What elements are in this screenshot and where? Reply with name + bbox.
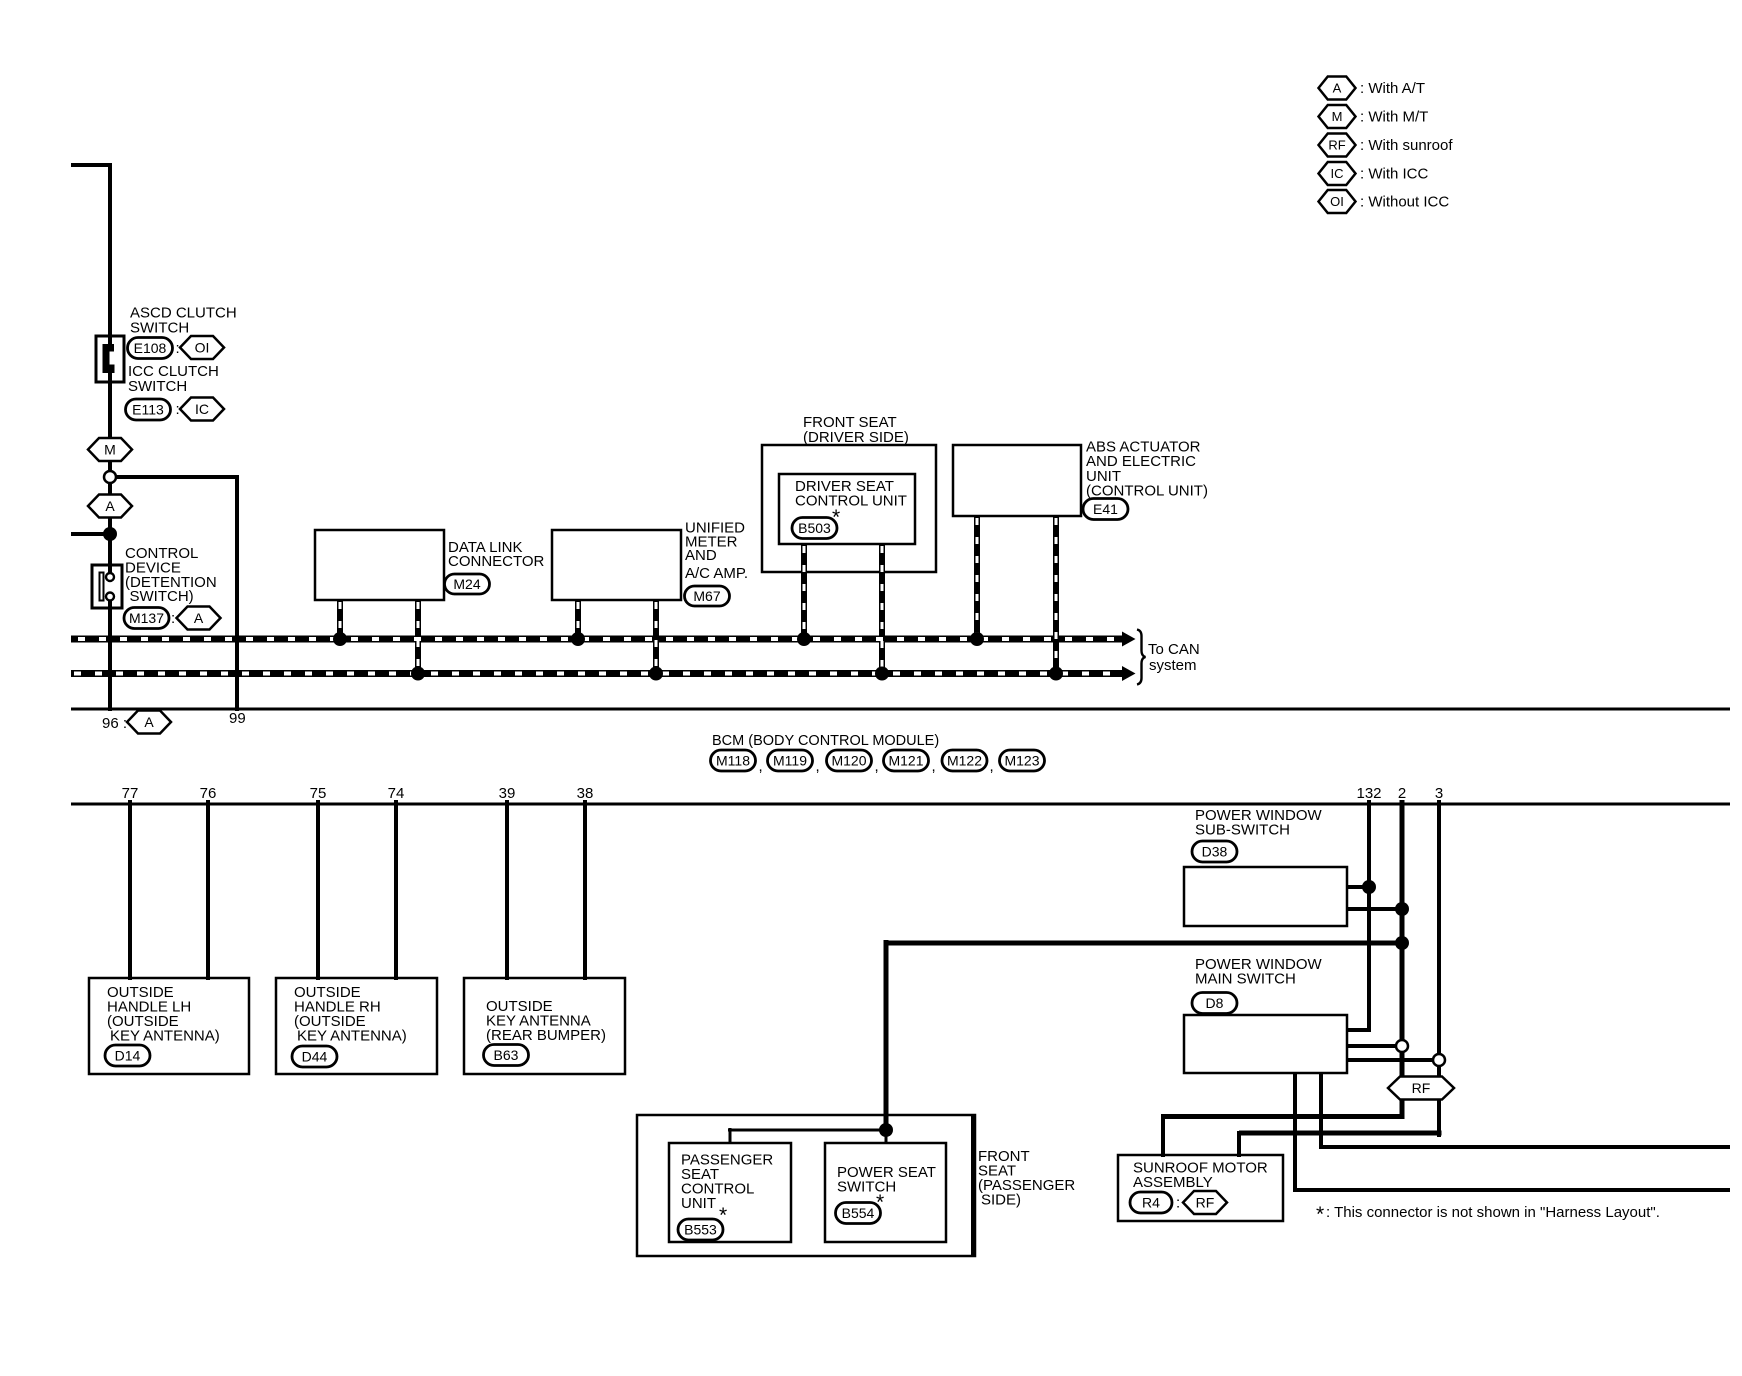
- E41L leg white dashes: [1055, 518, 1058, 671]
- junction dot trunk-2: [1395, 936, 1409, 950]
- wire sunroof horizontal 1: [1161, 1114, 1404, 1119]
- svg-text:D8: D8: [1206, 995, 1224, 1011]
- wire E41 leg to CAN-L: [1053, 516, 1059, 674]
- junction dot passenger trunk: [879, 1123, 893, 1137]
- wire D8 bottom leg right: [1319, 1073, 1323, 1149]
- connector M119: [768, 750, 813, 771]
- ABS actuator and electric unit E41 box: [953, 445, 1081, 516]
- data link connector M24 box: [315, 530, 444, 600]
- outside key antenna B63 box: [464, 978, 625, 1074]
- outside handle LH D14 box: [89, 978, 249, 1074]
- svg-text:*: *: [719, 1204, 727, 1227]
- svg-text:: This connector is not shown: : This connector is not shown in "Harnes…: [1326, 1204, 1660, 1221]
- junction dot B503/CAN-L: [875, 667, 889, 681]
- svg-text:*: *: [876, 1191, 884, 1214]
- B503H leg white dashes: [803, 546, 806, 636]
- wire branch to pin 99 horizontal: [110, 475, 239, 479]
- option tag A on wire: [88, 495, 132, 518]
- wire passenger-seat trunk horizontal: [886, 941, 1404, 946]
- svg-text:RF: RF: [1196, 1195, 1215, 1211]
- svg-text:B63: B63: [494, 1047, 519, 1063]
- svg-text:KEY ANTENNA): KEY ANTENNA): [110, 1028, 220, 1045]
- svg-text:(REAR BUMPER): (REAR BUMPER): [486, 1027, 606, 1044]
- wire CAN-L bus line: [71, 670, 1122, 677]
- wire sunroof horizontal 2: [1239, 1131, 1442, 1136]
- svg-text:: With M/T: : With M/T: [1360, 109, 1428, 126]
- svg-text:M: M: [104, 442, 116, 458]
- svg-text:M123: M123: [1004, 753, 1039, 769]
- svg-text:39: 39: [499, 785, 516, 802]
- svg-text:B554: B554: [842, 1205, 875, 1221]
- wire D8 stub B: [1347, 1058, 1441, 1062]
- wire D8 bottom leg left: [1293, 1073, 1297, 1192]
- svg-text:M120: M120: [831, 753, 866, 769]
- svg-text:D44: D44: [302, 1049, 328, 1065]
- svg-text:SWITCH: SWITCH: [837, 1179, 896, 1196]
- connector M121: [884, 750, 929, 771]
- wire thin branch to B553: [728, 1129, 888, 1132]
- svg-text:M121: M121: [888, 753, 923, 769]
- detention switch contact bottom: [106, 593, 114, 601]
- wire off-page right 2: [1295, 1188, 1730, 1192]
- CAN-H white dashes: [78, 637, 1118, 641]
- svg-text:MAIN SWITCH: MAIN SWITCH: [1195, 971, 1296, 988]
- connector B503: [792, 518, 837, 539]
- svg-text:KEY ANTENNA): KEY ANTENNA): [297, 1028, 407, 1045]
- svg-text:CONNECTOR: CONNECTOR: [448, 553, 545, 570]
- option tag M on wire: [88, 438, 132, 461]
- BCM module top line: [71, 708, 1730, 711]
- svg-text:A/C AMP.: A/C AMP.: [685, 565, 748, 582]
- svg-text:M: M: [1332, 109, 1343, 124]
- svg-text:3: 3: [1435, 785, 1443, 802]
- svg-text:74: 74: [388, 785, 405, 802]
- junction dot E41/CAN-H: [970, 632, 984, 646]
- CAN-L white dashes: [74, 672, 1118, 676]
- svg-text:: With A/T: : With A/T: [1360, 80, 1425, 97]
- svg-text:OI: OI: [1330, 194, 1344, 209]
- BCM module bottom line: [71, 803, 1730, 806]
- wire BCM pin 74 down: [394, 800, 398, 980]
- wire BCM pin 77 down: [128, 800, 132, 980]
- legend tag RF: [1319, 134, 1356, 157]
- legend tag M: [1319, 105, 1356, 128]
- option tag RF on wires: [1388, 1077, 1454, 1100]
- wire BCM pin 3 down: [1437, 800, 1441, 1137]
- connector M67: [685, 586, 730, 606]
- svg-text:A: A: [194, 610, 204, 626]
- svg-text:*: *: [832, 506, 840, 529]
- svg-text:96 :: 96 :: [102, 715, 127, 732]
- svg-text:IC: IC: [1331, 166, 1344, 181]
- connector M123: [1000, 750, 1045, 771]
- svg-text:E113: E113: [132, 402, 164, 418]
- open junction circle D8 stub A: [1396, 1040, 1408, 1052]
- driver seat control unit B503 box: [779, 474, 915, 544]
- connector M122: [942, 750, 987, 771]
- wire passenger-seat trunk vertical: [884, 940, 889, 1132]
- passenger seat control unit B553 box: [669, 1143, 791, 1242]
- svg-text:CONTROL UNIT: CONTROL UNIT: [795, 493, 907, 510]
- detention switch symbol: [107, 580, 114, 594]
- M24H leg white dashes: [339, 602, 342, 636]
- svg-text:132: 132: [1356, 785, 1381, 802]
- wire BCM pin 132 down: [1367, 800, 1371, 1032]
- wire E41 leg to CAN-H: [974, 516, 980, 639]
- wire pin 132 stub into D8: [1347, 1028, 1371, 1032]
- wire sunroof leg right: [1237, 1131, 1241, 1157]
- svg-text:99: 99: [229, 710, 246, 727]
- To CAN system brace: [1137, 630, 1146, 685]
- wire BCM pin 39 down: [505, 800, 509, 980]
- front seat passenger side outer box: [637, 1115, 975, 1256]
- connector M118: [711, 750, 756, 771]
- power window sub-switch D38 box: [1184, 867, 1347, 926]
- legend tag OI: [1319, 190, 1356, 213]
- wire CAN-H bus line: [71, 636, 1122, 643]
- wire main vertical from clutch switches to BCM pin 96: [108, 163, 112, 711]
- junction dot M67/CAN-H: [571, 632, 585, 646]
- wire M67 leg to CAN-L: [653, 600, 659, 674]
- svg-text:,: ,: [759, 758, 763, 775]
- svg-text:SIDE): SIDE): [981, 1192, 1021, 1209]
- power window main switch D8 box: [1184, 1015, 1347, 1073]
- detention switch contact top: [106, 573, 114, 581]
- legend tag A: [1319, 77, 1356, 100]
- open junction circle D8 stub B: [1433, 1054, 1445, 1066]
- M24L leg white dashes: [417, 602, 420, 671]
- wire into junction at control device: [71, 532, 112, 536]
- wire D38 stub to pin132 line: [1347, 885, 1369, 889]
- svg-text:76: 76: [200, 785, 217, 802]
- svg-text:system: system: [1149, 657, 1197, 674]
- wire D8 stub A: [1347, 1044, 1402, 1048]
- svg-text:: With sunroof: : With sunroof: [1360, 137, 1453, 154]
- svg-text:ASSEMBLY: ASSEMBLY: [1133, 1174, 1213, 1191]
- junction dot D38-2: [1395, 902, 1409, 916]
- legend tag IC: [1319, 162, 1356, 185]
- svg-text:,: ,: [932, 758, 936, 775]
- svg-text:,: ,: [990, 758, 994, 775]
- svg-text:RF: RF: [1328, 138, 1345, 153]
- svg-text:BCM (BODY CONTROL MODULE): BCM (BODY CONTROL MODULE): [712, 733, 939, 749]
- svg-text:D14: D14: [115, 1048, 141, 1064]
- svg-text:IC: IC: [195, 401, 209, 417]
- svg-text:R4: R4: [1142, 1195, 1160, 1211]
- svg-text:A: A: [144, 714, 154, 730]
- svg-text:D38: D38: [1202, 844, 1228, 860]
- svg-text::: :: [176, 340, 180, 357]
- junction dot control branch: [103, 527, 117, 541]
- svg-text:M119: M119: [773, 753, 807, 769]
- connector D38: [1192, 841, 1237, 862]
- wire B503 leg to CAN-L: [879, 544, 885, 674]
- connector R4: [1130, 1192, 1172, 1213]
- svg-text:M118: M118: [716, 753, 750, 769]
- svg-text:38: 38: [577, 785, 594, 802]
- svg-text:B553: B553: [684, 1222, 717, 1238]
- E41H leg white dashes: [976, 518, 979, 636]
- wire BCM pin 75 down: [316, 800, 320, 980]
- svg-text:SWITCH: SWITCH: [128, 378, 187, 395]
- connector B554: [836, 1203, 881, 1224]
- connector D14: [105, 1045, 150, 1066]
- option tag A pin96: [127, 711, 171, 734]
- svg-text:,: ,: [816, 758, 820, 775]
- connector E108: [128, 338, 173, 359]
- connector M120: [827, 750, 872, 771]
- svg-text:B503: B503: [798, 520, 831, 536]
- svg-text:(CONTROL UNIT): (CONTROL UNIT): [1086, 483, 1208, 500]
- M67L leg white dashes: [655, 602, 658, 671]
- connector E41: [1083, 499, 1128, 520]
- svg-text:E108: E108: [134, 340, 167, 356]
- wire top-left stub: [71, 163, 112, 167]
- junction dot M24/CAN-H: [333, 632, 347, 646]
- option tag A for M137: [177, 607, 221, 630]
- connector D8: [1192, 993, 1237, 1014]
- svg-text:M24: M24: [453, 576, 480, 592]
- svg-text:SUB-SWITCH: SUB-SWITCH: [1195, 822, 1290, 839]
- svg-text:OI: OI: [195, 340, 210, 356]
- junction dot M24/CAN-L: [411, 667, 425, 681]
- wire sunroof leg left: [1161, 1114, 1165, 1157]
- open junction circle branch 99: [104, 471, 116, 483]
- sunroof motor assembly box: [1118, 1155, 1283, 1221]
- svg-text:: With ICC: : With ICC: [1360, 166, 1429, 183]
- svg-text:M122: M122: [947, 753, 982, 769]
- option tag OI: [180, 336, 224, 359]
- wire thin into B554: [885, 1128, 888, 1144]
- option tag RF sunroof: [1183, 1191, 1227, 1214]
- junction dot M67/CAN-L: [649, 667, 663, 681]
- unified meter and A/C amp M67 box: [552, 530, 681, 600]
- control device (detention switch) box: [92, 565, 122, 608]
- connector M137: [124, 608, 169, 629]
- connector M24: [445, 574, 490, 594]
- svg-text:M67: M67: [693, 588, 720, 604]
- wire BCM pin 2 down: [1400, 800, 1405, 1119]
- svg-text:2: 2: [1398, 785, 1406, 802]
- wire M67 leg to CAN-H: [575, 600, 581, 639]
- wire BCM pin 76 down: [206, 800, 210, 980]
- B503L leg white dashes: [881, 546, 884, 671]
- svg-text:SWITCH): SWITCH): [130, 588, 194, 605]
- wire M24 leg to CAN-L: [415, 600, 421, 674]
- wire B503 leg to CAN-H: [801, 544, 807, 639]
- wire D38 stub to pin2 line: [1347, 907, 1404, 911]
- wire off-page right 1: [1321, 1145, 1730, 1149]
- svg-text:M137: M137: [129, 610, 164, 626]
- wire BCM pin 38 down: [583, 800, 587, 980]
- ASCD/ICC clutch switch box: [96, 336, 124, 382]
- svg-text:To CAN: To CAN: [1148, 641, 1200, 658]
- power seat switch B554 box: [825, 1143, 946, 1242]
- svg-text::: :: [171, 610, 175, 627]
- CAN-H arrowhead: [1122, 632, 1136, 647]
- svg-text:UNIT: UNIT: [681, 1195, 716, 1212]
- svg-text:*: *: [1316, 1203, 1324, 1226]
- svg-text::: :: [1176, 1195, 1180, 1212]
- connector D44: [292, 1046, 337, 1067]
- clutch switch symbol: [110, 352, 116, 365]
- outside handle RH D44 box: [276, 978, 437, 1074]
- M67H leg white dashes: [577, 602, 580, 636]
- svg-text:SWITCH: SWITCH: [130, 320, 189, 337]
- junction dot B503/CAN-H: [797, 632, 811, 646]
- svg-text:E41: E41: [1093, 501, 1118, 517]
- junction dot D38-132: [1362, 880, 1376, 894]
- svg-text:: Without ICC: : Without ICC: [1360, 194, 1449, 211]
- junction dot E41/CAN-L: [1049, 667, 1063, 681]
- connector E113: [126, 399, 171, 420]
- front seat driver side outer box: [762, 445, 936, 572]
- svg-text:AND: AND: [685, 547, 717, 564]
- wire M24 leg to CAN-H: [337, 600, 343, 639]
- connector B553: [678, 1219, 723, 1240]
- svg-text:(DRIVER SIDE): (DRIVER SIDE): [803, 429, 909, 446]
- svg-text:A: A: [1333, 81, 1342, 96]
- svg-text:A: A: [105, 498, 115, 514]
- svg-text:RF: RF: [1412, 1080, 1431, 1096]
- wire branch to pin 99 vertical: [235, 475, 239, 711]
- svg-text:,: ,: [875, 758, 879, 775]
- svg-text:77: 77: [122, 785, 139, 802]
- svg-text:75: 75: [310, 785, 327, 802]
- connector B63: [484, 1045, 529, 1066]
- CAN-L arrowhead: [1122, 666, 1136, 681]
- option tag IC: [180, 398, 224, 421]
